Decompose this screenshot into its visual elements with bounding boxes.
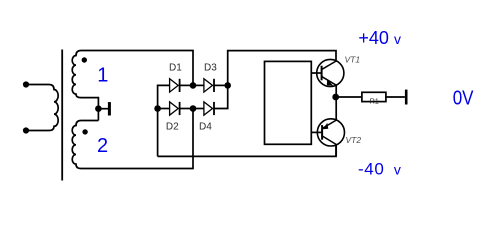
wire D1 cathode to node bbox=[180, 84, 193, 86]
svg-text:+40: +40 bbox=[358, 28, 389, 48]
secondary winding 2 with bottom rail to bridge bbox=[72, 109, 193, 169]
wire row2 left bbox=[158, 108, 170, 110]
svg-text:1: 1 bbox=[97, 65, 108, 87]
junction dot D1-D3 bbox=[190, 82, 197, 89]
VT1 base wire bbox=[311, 72, 321, 74]
primary top terminal dot bbox=[23, 81, 29, 87]
svg-text:v: v bbox=[394, 162, 401, 178]
VT1 base bar bbox=[321, 66, 323, 81]
wire row1 left from D1 anode down to negative rail bbox=[158, 85, 170, 156]
svg-text:VT1: VT1 bbox=[345, 54, 361, 64]
svg-text:D1: D1 bbox=[169, 63, 182, 74]
center tap wire bbox=[98, 108, 108, 110]
winding 1 phase dot bbox=[82, 57, 87, 62]
VT2 base wire bbox=[311, 131, 322, 133]
VT1 emitter wire down to node bbox=[335, 85, 337, 97]
wire D3 cathode to +node bbox=[214, 84, 228, 86]
wire node to D4 anode bbox=[193, 108, 204, 110]
center tap terminal bar bbox=[108, 102, 111, 115]
VT2 collector wire down to -40 rail bbox=[335, 145, 337, 157]
wire D4 cathode up to +node bbox=[214, 85, 228, 108]
transistor VT2 circle bbox=[317, 119, 344, 146]
diode D3 bbox=[204, 79, 213, 92]
output wire node to R1 bbox=[336, 96, 362, 98]
D4 cathode bar bbox=[213, 102, 215, 115]
diode D1 bbox=[170, 79, 179, 92]
D1 cathode bar bbox=[179, 79, 181, 92]
center tap junction dot bbox=[95, 105, 102, 112]
junction dot D3-D4 cathodes bbox=[224, 82, 231, 89]
winding 2 phase dot bbox=[82, 129, 87, 134]
diode D4 bbox=[204, 102, 213, 115]
svg-text:R1: R1 bbox=[370, 98, 379, 105]
svg-text:D2: D2 bbox=[166, 122, 179, 133]
D3 cathode bar bbox=[213, 79, 215, 92]
VT1 emitter arrow head bbox=[327, 79, 333, 85]
wire node to D3 anode bbox=[193, 84, 204, 86]
VT2 collector diagonal bbox=[323, 136, 337, 145]
diode D2 bbox=[170, 102, 179, 115]
VT2 base bar bbox=[321, 125, 323, 140]
svg-text:VT2: VT2 bbox=[346, 135, 362, 145]
transistor VT1 circle bbox=[317, 59, 344, 86]
primary bottom terminal dot bbox=[23, 127, 29, 133]
svg-text:v: v bbox=[394, 31, 401, 47]
regulator block box bbox=[265, 61, 312, 144]
secondary winding 1 with top rail to bridge bbox=[72, 51, 193, 121]
wire D2 cathode to node bbox=[180, 108, 193, 110]
wire R1 to output terminal bbox=[386, 96, 405, 98]
svg-text:D4: D4 bbox=[199, 122, 212, 133]
VT2 emitter arrow head bbox=[323, 123, 329, 129]
junction dot D2-D4 bbox=[190, 105, 197, 112]
transformer T1 core bbox=[61, 50, 63, 181]
VT2 emitter wire from node bbox=[335, 97, 337, 120]
VT2 emitter diagonal with arrow to base bbox=[323, 120, 337, 128]
svg-text:D3: D3 bbox=[204, 63, 217, 74]
svg-text:-40: -40 bbox=[358, 160, 384, 179]
VT1 emitter diagonal with arrow bbox=[322, 77, 336, 86]
+40 rail from bridge to VT1 collector bbox=[228, 51, 336, 86]
D2 cathode bar bbox=[179, 102, 181, 115]
junction dot row2 left bbox=[154, 105, 161, 112]
svg-text:0V: 0V bbox=[453, 86, 474, 109]
svg-text:2: 2 bbox=[97, 135, 108, 157]
output node dot bbox=[332, 94, 339, 101]
resistor R1 body bbox=[362, 92, 386, 101]
transformer primary winding bbox=[26, 85, 58, 131]
-40 rail from bridge to VT2 collector bbox=[158, 146, 336, 156]
VT1 collector diagonal bbox=[322, 61, 336, 69]
output terminal bar bbox=[405, 90, 408, 105]
